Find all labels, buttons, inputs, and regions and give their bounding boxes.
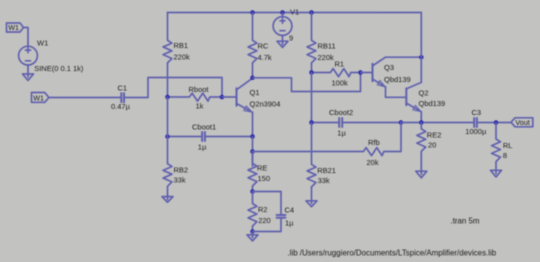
capacitor C4 <box>253 192 295 232</box>
resistor RB21 <box>307 123 336 201</box>
wire W1 source to ground <box>27 65 29 74</box>
resistor Rboot <box>168 85 223 111</box>
svg-text:C3: C3 <box>472 108 482 117</box>
node Cboot2 left junction <box>309 120 314 125</box>
port flag W1 (input, lower) <box>32 93 49 103</box>
svg-text:220: 220 <box>258 216 271 225</box>
wire Q3 collector to rail corner <box>386 56 422 58</box>
node R1 right junction <box>358 70 363 75</box>
node top-rail junction at RB11 <box>309 10 314 15</box>
svg-text:SINE(0 0.1 1k): SINE(0 0.1 1k) <box>34 64 84 73</box>
transistor Q2 <box>406 82 445 122</box>
svg-text:Vout: Vout <box>515 118 529 127</box>
svg-text:150: 150 <box>258 174 271 183</box>
node Rfb tap junction <box>250 149 255 154</box>
node Rboot left junction <box>165 95 170 100</box>
node Cboot1 left junction <box>165 134 170 139</box>
svg-text:C1: C1 <box>118 84 128 93</box>
svg-text:RB11: RB11 <box>318 42 336 51</box>
wire W1 flag to C1 <box>49 97 122 99</box>
port flag Vout <box>511 118 533 127</box>
wire Q1 collector to Q3 base (step) <box>253 73 361 92</box>
svg-text:220k: 220k <box>318 53 335 62</box>
wire R1 to Q3 base <box>361 72 373 74</box>
svg-text:Qbd139: Qbd139 <box>419 99 446 108</box>
resistor RL <box>492 123 513 171</box>
node Q2 emitter junction <box>419 120 424 125</box>
svg-text:100k: 100k <box>332 79 349 88</box>
node RE bottom junction <box>250 189 255 194</box>
svg-text:W1: W1 <box>8 23 19 32</box>
svg-text:Q2: Q2 <box>419 89 429 98</box>
resistor RB11 <box>307 13 336 73</box>
svg-text:33k: 33k <box>318 176 330 185</box>
wire Rboot to Q1 base <box>222 96 237 98</box>
svg-text:1µ: 1µ <box>285 218 294 227</box>
ground below W1 <box>27 74 29 78</box>
svg-text:33k: 33k <box>174 176 186 185</box>
svg-text:RB21: RB21 <box>317 166 336 175</box>
node RL junction <box>494 120 499 125</box>
svg-text:20k: 20k <box>367 158 379 167</box>
node R1 left junction <box>309 70 314 75</box>
ground below RB2 <box>167 195 169 200</box>
svg-text:4.7k: 4.7k <box>258 53 272 62</box>
wire output rail <box>401 122 474 124</box>
svg-text:Cboot1: Cboot1 <box>192 123 216 132</box>
svg-text:20: 20 <box>428 141 436 150</box>
node top-rail junction at V1 <box>280 10 285 15</box>
svg-text:RC: RC <box>258 42 269 51</box>
resistor RB2 <box>163 97 188 195</box>
svg-text:Rfb: Rfb <box>368 138 380 147</box>
resistor RB1 <box>163 13 190 98</box>
transistor Q1 <box>237 78 281 136</box>
wire bias column RB11 to Cboot2 <box>311 73 313 123</box>
node Q1 collector junction <box>250 76 255 81</box>
capacitor C3 <box>465 108 511 136</box>
svg-text:1µ: 1µ <box>337 128 346 137</box>
svg-text:RB1: RB1 <box>174 41 189 50</box>
wire Q1 emitter column <box>252 137 254 167</box>
capacitor Cboot2 <box>312 108 402 137</box>
resistor RE2 <box>417 123 441 171</box>
node Cboot2 right junction <box>399 120 404 125</box>
ground below V1 <box>282 41 284 45</box>
svg-text:R1: R1 <box>335 60 345 69</box>
svg-text:.tran 5m: .tran 5m <box>451 217 480 226</box>
svg-text:1k: 1k <box>196 102 204 111</box>
svg-text:Cboot2: Cboot2 <box>329 108 353 117</box>
resistor RE <box>248 152 270 192</box>
ground below RL <box>495 170 497 174</box>
svg-text:0.47µ: 0.47µ <box>111 102 131 111</box>
svg-text:C4: C4 <box>285 206 295 215</box>
svg-text:.lib /Users/ruggiero/Documents: .lib /Users/ruggiero/Documents/LTspice/A… <box>288 248 497 257</box>
svg-text:RE: RE <box>257 163 267 172</box>
ground below RB21 <box>311 201 313 204</box>
svg-text:220k: 220k <box>174 53 191 62</box>
port flag W1 (top left) <box>7 23 24 32</box>
svg-text:RE2: RE2 <box>427 131 442 140</box>
svg-text:Q3: Q3 <box>384 63 394 72</box>
svg-text:W1: W1 <box>33 93 44 102</box>
svg-text:1000µ: 1000µ <box>465 127 487 136</box>
resistor RC <box>248 13 272 78</box>
wire rail down right side <box>420 13 422 83</box>
svg-text:Qbd139: Qbd139 <box>384 75 411 84</box>
svg-text:1µ: 1µ <box>198 142 207 151</box>
svg-text:Q2n3904: Q2n3904 <box>250 100 281 109</box>
voltage source V1 <box>273 8 299 43</box>
node Rboot right junction <box>220 95 225 100</box>
transistor Q3 <box>373 57 411 97</box>
node top-rail junction at RC <box>250 10 255 15</box>
svg-text:RL: RL <box>503 141 513 150</box>
wire flag to W1 source <box>24 28 29 47</box>
svg-text:W1: W1 <box>37 39 48 48</box>
svg-text:Q1: Q1 <box>250 88 260 97</box>
svg-text:9: 9 <box>289 34 293 43</box>
capacitor C1 <box>111 84 131 111</box>
ground below RE2 <box>420 171 422 175</box>
resistor R2 <box>248 192 271 232</box>
resistor R1 <box>312 60 361 88</box>
capacitor Cboot1 <box>168 123 253 152</box>
svg-text:Rboot: Rboot <box>189 85 210 94</box>
node Q3 collector junction <box>419 55 424 60</box>
ground below R2 <box>247 232 258 241</box>
svg-text:8: 8 <box>503 151 507 160</box>
svg-text:R2: R2 <box>258 205 268 214</box>
svg-text:RB2: RB2 <box>174 166 189 175</box>
node R2 bottom junction <box>250 229 255 234</box>
node Cboot1 right junction <box>250 134 255 139</box>
resistor Rfb <box>253 123 402 168</box>
wire C1 to Rboot-right node (up-and-over) <box>124 78 222 98</box>
voltage source W1 <box>19 39 84 74</box>
wire top rail <box>168 12 422 14</box>
svg-text:V1: V1 <box>290 8 299 17</box>
